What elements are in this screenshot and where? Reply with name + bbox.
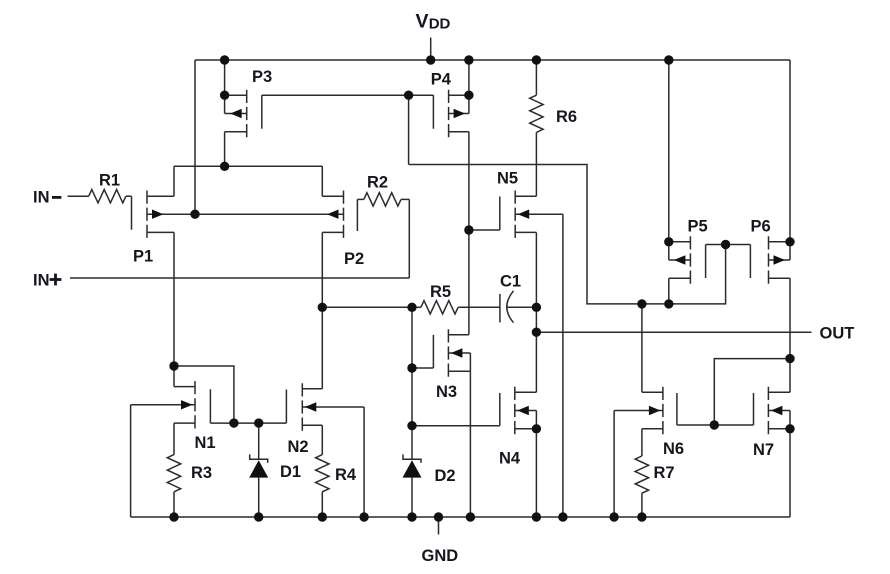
svg-text:P1: P1	[133, 248, 153, 266]
transistor N7	[754, 387, 791, 517]
junction VDD/P3	[220, 55, 229, 64]
transistor N3	[433, 329, 470, 517]
resistor R2	[357, 193, 409, 206]
junction GND/R7	[637, 512, 646, 521]
svg-text:GND: GND	[422, 547, 459, 565]
junction VDD/R6	[532, 55, 541, 64]
svg-text:R3: R3	[191, 464, 212, 482]
svg-text:R5: R5	[430, 283, 451, 301]
wire N4 gate	[412, 425, 500, 427]
junction P1/P2 bulk	[190, 210, 199, 219]
transistor P2	[195, 166, 357, 307]
transistor N1	[131, 366, 211, 517]
junction P5/P6 gate	[721, 240, 730, 249]
junction P3 source	[220, 91, 229, 100]
svg-text:N4: N4	[499, 450, 521, 468]
junction P3/P4 gate	[404, 91, 413, 100]
wire N3 gate	[412, 367, 433, 369]
junction N1 gate	[229, 418, 238, 427]
junction N6 drain	[637, 299, 646, 308]
svg-text:P4: P4	[431, 71, 452, 89]
svg-text:N1: N1	[195, 434, 216, 452]
transistor N5	[500, 191, 563, 518]
junction P5 source	[664, 237, 673, 246]
wire N6/N7 gates to P6 drain	[714, 359, 790, 425]
svg-text:N3: N3	[436, 383, 457, 401]
svg-text:P2: P2	[344, 250, 364, 268]
junction P6 drain	[785, 354, 794, 363]
svg-text:C1: C1	[500, 273, 521, 291]
wire N6/N7 gate	[677, 424, 754, 426]
wire VDD to R6	[535, 60, 537, 95]
junction GND/N5 bulk	[558, 512, 567, 521]
junction P3 drain tail	[220, 162, 229, 171]
junction GND/N3	[466, 512, 475, 521]
junction P4 source	[464, 91, 473, 100]
wire IN- input	[68, 195, 89, 197]
wire VDD to P4 source/bulk	[468, 60, 470, 114]
junction VDD supply	[426, 55, 435, 64]
diode D1	[249, 423, 268, 517]
junction N3 gate	[407, 363, 416, 372]
junction N5 gate	[464, 225, 473, 234]
svg-text:N2: N2	[288, 438, 309, 456]
wire IN+ input	[70, 199, 409, 278]
wire P1/P2 common source to P3 drain	[174, 165, 322, 167]
junction D1 top	[254, 418, 263, 427]
wire VDD to P1/P2 bulk	[194, 60, 196, 214]
junction N6/N7 gate	[710, 420, 719, 429]
wire P5/P6 gate	[706, 244, 751, 246]
svg-text:N7: N7	[753, 441, 774, 459]
wire bias chain	[411, 307, 413, 425]
wire VDD top rail	[195, 59, 790, 61]
svg-text:P3: P3	[252, 68, 272, 86]
junction N4 source	[532, 424, 541, 433]
resistor R3	[167, 423, 180, 517]
wire R6 to N5 drain	[535, 132, 537, 196]
svg-text:R1: R1	[99, 172, 120, 190]
resistor R1	[89, 190, 132, 203]
wire P3 gate to P4 gate	[262, 94, 434, 96]
resistor R6	[530, 95, 543, 132]
svg-text:N5: N5	[497, 170, 518, 188]
junction GND/D2	[407, 512, 416, 521]
node VDD stub	[430, 38, 432, 61]
junction N4 gate	[407, 421, 416, 430]
ground rail	[131, 516, 790, 518]
transistor P6	[750, 236, 790, 392]
junction GND/N4	[532, 512, 541, 521]
wire OUT line	[536, 331, 811, 333]
junction OUT tap	[532, 328, 541, 337]
transistor N4	[500, 387, 537, 517]
svg-text:IN: IN	[33, 189, 50, 207]
junction C1 right	[532, 303, 541, 312]
junction GND/N6 bulk	[609, 512, 618, 521]
wire N1 diode connection	[174, 366, 234, 423]
junction N7 source	[785, 424, 794, 433]
junction VDD/P4	[464, 55, 473, 64]
resistor R4	[316, 455, 329, 517]
ground stub	[438, 517, 440, 535]
junction VDD/P5	[664, 55, 673, 64]
transistor N2	[286, 307, 364, 517]
diode D2	[403, 426, 422, 517]
svg-text:D2: D2	[435, 467, 456, 485]
wire VDD to P3 source	[224, 60, 226, 95]
transistor P3	[225, 90, 262, 167]
wire bias route to P5/P6 gates	[409, 165, 726, 304]
junction N1 drain	[169, 361, 178, 370]
junction P5 drain	[664, 299, 673, 308]
junction GND stub	[434, 512, 443, 521]
resistor R5	[412, 301, 500, 314]
wire VDD to P6 source/bulk	[789, 60, 791, 260]
junction GND/N2 bulk	[359, 512, 368, 521]
svg-text:R7: R7	[654, 464, 675, 482]
svg-text:D1: D1	[280, 463, 301, 481]
junction R5 left	[407, 303, 416, 312]
svg-text:R2: R2	[367, 174, 388, 192]
capacitor C1	[500, 291, 537, 323]
junction P6 source	[785, 237, 794, 246]
wire second stage node	[322, 306, 412, 308]
resistor R7	[635, 456, 648, 517]
wire N1/N2 mirror gates	[210, 422, 286, 424]
svg-text:P5: P5	[688, 218, 708, 236]
svg-text:N6: N6	[663, 440, 684, 458]
svg-text:IN: IN	[33, 272, 50, 290]
svg-text:DD: DD	[429, 16, 451, 33]
junction P2 drain node	[318, 303, 327, 312]
junction GND/R3	[169, 512, 178, 521]
svg-text:V: V	[416, 11, 429, 33]
svg-text:P6: P6	[751, 218, 771, 236]
transistor P1	[132, 166, 196, 366]
svg-text:OUT: OUT	[820, 324, 855, 342]
wire gate node down	[408, 95, 410, 164]
wire N5 gate	[469, 229, 500, 231]
svg-text:R4: R4	[335, 466, 357, 484]
junction GND/D1	[254, 512, 263, 521]
transistor N6	[614, 304, 677, 517]
wire VDD to P5 source/bulk	[668, 60, 670, 260]
transistor P5	[669, 236, 706, 304]
transistor P4	[433, 90, 469, 335]
svg-text:R6: R6	[556, 108, 577, 126]
junction GND/R4	[318, 512, 327, 521]
